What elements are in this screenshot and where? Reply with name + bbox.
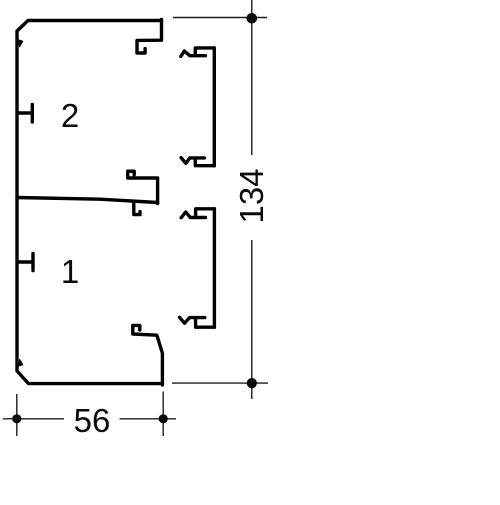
upper cover side wall (213, 48, 216, 166)
wall clip nub bottom (19, 359, 23, 366)
lower cover bottom hook (180, 317, 215, 327)
lower cover top hook (181, 209, 214, 218)
top cover latch (137, 20, 162, 54)
divider cover latch (128, 171, 158, 203)
compartment 2 clip post (31, 105, 34, 123)
divider lower hook (134, 203, 140, 215)
upper cover top hook (181, 48, 214, 57)
width dimension dot right (159, 414, 168, 423)
svg-text:2: 2 (61, 97, 79, 134)
compartment 2 clip bar (18, 111, 32, 114)
upper cover bottom hook (181, 158, 214, 166)
height extension line top (173, 17, 267, 19)
height dimension dot top (247, 13, 258, 24)
svg-text:56: 56 (74, 402, 111, 439)
trunking body outer shell (17, 21, 162, 384)
width dimension line right segment (120, 418, 177, 420)
height dimension dot bottom (247, 378, 257, 388)
compartment 1 clip post (31, 254, 34, 271)
compartment 1 clip bar (18, 260, 33, 263)
width dimension dot left (12, 414, 21, 423)
width dimension line left segment (3, 418, 64, 420)
svg-text:134: 134 (233, 168, 270, 223)
height extension line bottom (172, 382, 268, 384)
bottom cover latch (133, 325, 163, 385)
wall clip nub top (19, 40, 23, 47)
width extension line left (16, 394, 18, 436)
height dimension line lower segment (251, 240, 253, 399)
svg-text:1: 1 (61, 253, 79, 290)
compartment divider wall (17, 198, 158, 203)
height dimension line upper segment (251, 0, 253, 155)
lower cover side wall (213, 209, 216, 327)
width extension line right (162, 392, 164, 437)
